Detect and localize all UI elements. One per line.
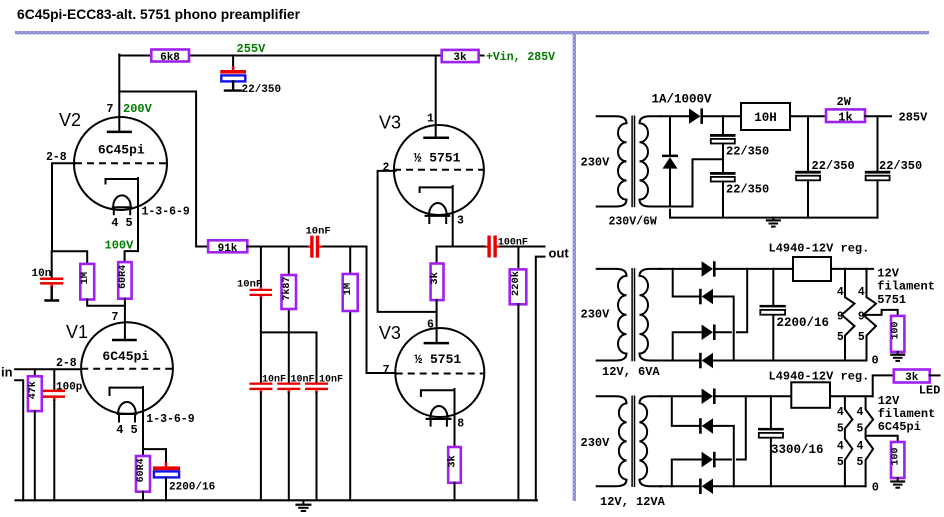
diode D11 bridge: [702, 452, 713, 468]
capacitor 100nF output: [485, 236, 528, 258]
tube V3b heater: [430, 406, 447, 418]
tube V1 envelope: [81, 322, 173, 414]
wire 1k to output: [865, 115, 891, 117]
wire V3a cathode to output: [437, 186, 545, 247]
svg-text:0: 0: [872, 354, 879, 368]
svg-text:5: 5: [858, 331, 865, 344]
svg-text:V3: V3: [379, 113, 401, 133]
diode D5 bridge: [702, 261, 713, 277]
diode D6 bridge: [699, 289, 702, 305]
wire D1 to choke: [703, 115, 741, 117]
svg-text:1M: 1M: [79, 272, 91, 285]
diode D9 bridge: [702, 389, 713, 405]
svg-text:½ 5751: ½ 5751: [414, 352, 461, 367]
wire LED stub: [930, 374, 940, 376]
transformer T2 core: [632, 269, 634, 361]
capacitor 22/350 first: [710, 116, 769, 172]
diode D7 bridge: [702, 325, 713, 341]
svg-text:1-3-6-9: 1-3-6-9: [142, 206, 190, 219]
svg-text:5: 5: [837, 331, 844, 344]
svg-text:8: 8: [457, 418, 464, 431]
svg-text:230V/6W: 230V/6W: [609, 216, 657, 229]
ground symbol: [295, 501, 311, 512]
svg-text:100V: 100V: [105, 239, 135, 253]
svg-text:V3: V3: [379, 323, 401, 343]
svg-text:2: 2: [383, 162, 390, 175]
resistor 3k SRPP: [429, 247, 444, 344]
transformer T2 primary: [597, 269, 627, 361]
resistor 100 hum PSU3: [891, 442, 904, 478]
svg-text:10H: 10H: [754, 111, 777, 125]
svg-text:230V: 230V: [581, 156, 611, 170]
svg-text:L4940-12V reg.: L4940-12V reg.: [769, 242, 870, 256]
diode D12 bridge: [699, 479, 702, 495]
svg-text:V1: V1: [66, 322, 88, 342]
transformer T1 core: [632, 116, 634, 206]
ground symbol PSU3: [890, 478, 905, 489]
svg-text:22/350: 22/350: [242, 84, 282, 96]
tube V1 cathode: [110, 388, 144, 396]
svg-text:4: 4: [858, 286, 865, 299]
svg-text:LED: LED: [919, 384, 941, 398]
svg-text:4: 4: [837, 406, 844, 419]
svg-text:in: in: [1, 365, 13, 380]
wire bridge stub C: [672, 396, 699, 426]
resistor 1M grid V2: [79, 264, 125, 306]
capacitor 22/350 third: [795, 116, 854, 217]
tube V1 grid: [81, 368, 173, 370]
heater zigzag right 5751: [863, 269, 876, 361]
wire 91k output node: [248, 247, 396, 374]
svg-text:1k: 1k: [838, 110, 852, 124]
regulator U2 box: [791, 382, 830, 408]
wire input ground stub: [15, 380, 23, 500]
transformer T3 core: [632, 396, 634, 486]
svg-text:5: 5: [131, 423, 138, 437]
svg-text:4: 4: [111, 216, 118, 230]
svg-text:1M: 1M: [342, 283, 354, 296]
capacitor 2200/16: [153, 449, 215, 500]
svg-text:100nF: 100nF: [498, 238, 528, 249]
wire shunt branch 1: [260, 247, 262, 288]
capacitor 3300/16: [758, 396, 824, 486]
svg-text:5751: 5751: [877, 293, 906, 307]
svg-text:12V: 12V: [877, 266, 899, 280]
wire D10 anode to ground: [713, 426, 734, 486]
diode D10 bridge: [699, 418, 702, 434]
ground symbol PSU1: [766, 218, 781, 228]
svg-text:7: 7: [107, 103, 114, 116]
tube V3a grid: [394, 169, 484, 171]
svg-text:12V, 12VA: 12V, 12VA: [600, 495, 666, 509]
capacitor 22/350 second: [710, 172, 769, 218]
capacitor 22/350 fourth: [865, 116, 922, 217]
tube V3a envelope: [394, 125, 484, 215]
svg-text:6C45pi: 6C45pi: [98, 143, 145, 158]
svg-text:4: 4: [837, 440, 844, 453]
wire D7 cathode jog to plus: [716, 269, 748, 332]
svg-text:22/350: 22/350: [879, 159, 922, 173]
svg-text:7k87: 7k87: [281, 277, 293, 301]
svg-text:+Vin, 285V: +Vin, 285V: [486, 51, 555, 64]
svg-text:out: out: [549, 246, 570, 261]
wire secondary top to D1: [660, 115, 689, 117]
resistor 1k: [826, 109, 865, 122]
wire T3 secondary bottom: [660, 485, 699, 487]
regulator U1 box: [793, 257, 831, 281]
wire bridge plus rail: [716, 268, 794, 270]
svg-text:2200/16: 2200/16: [777, 316, 830, 330]
tube V3b plate: [424, 342, 450, 345]
tube V2 heater: [113, 195, 131, 206]
svg-text:5: 5: [857, 423, 864, 436]
resistor 3k LED: [894, 370, 930, 383]
wire branch to 91k: [119, 92, 208, 247]
resistor 91k: [208, 240, 247, 252]
capacitor 10nF bottom 3: [305, 375, 343, 501]
wire regulator output: [831, 268, 873, 270]
transformer T3 secondary: [640, 396, 662, 486]
svg-text:1A/1000V: 1A/1000V: [652, 93, 713, 107]
svg-text:9: 9: [858, 311, 865, 324]
vertical separator: [573, 33, 576, 501]
svg-text:6k8: 6k8: [160, 52, 180, 64]
wire heater tap PSU3: [866, 436, 898, 442]
svg-text:½ 5751: ½ 5751: [414, 151, 461, 166]
svg-text:285V: 285V: [899, 111, 929, 125]
wire V3a grid to V3b plate: [378, 171, 437, 312]
tube V2 grid: [75, 162, 166, 164]
wire ground rail: [16, 499, 537, 501]
tube V3a plate: [423, 137, 449, 140]
svg-text:2200/16: 2200/16: [169, 482, 215, 494]
svg-text:10nF: 10nF: [237, 279, 262, 291]
svg-text:47k: 47k: [27, 381, 39, 399]
wire bridge plus rail PSU3: [716, 395, 792, 397]
svg-text:3k: 3k: [429, 272, 441, 285]
svg-text:10nF: 10nF: [306, 226, 331, 238]
tube V3b envelope: [395, 328, 484, 417]
svg-text:5: 5: [837, 456, 844, 469]
transformer T1 primary: [597, 116, 627, 206]
svg-text:100: 100: [891, 447, 902, 465]
svg-text:12V: 12V: [878, 394, 900, 408]
wire V2 plate drop: [118, 55, 120, 132]
svg-text:60R4: 60R4: [118, 265, 129, 289]
resistor 220k: [510, 247, 527, 501]
svg-text:filament: filament: [877, 280, 935, 294]
capacitor 22/350 reservoir: [220, 56, 281, 97]
svg-text:230V: 230V: [581, 436, 611, 450]
tube V1 heater: [118, 402, 136, 413]
wire PSU1 ground rail: [670, 217, 878, 219]
horizontal rule: [15, 31, 929, 34]
heater zigzag left 5751: [842, 269, 855, 361]
svg-text:12V, 6VA: 12V, 6VA: [602, 365, 660, 379]
wire secondary bottom midpoint tap: [660, 159, 723, 206]
svg-text:220k: 220k: [510, 271, 522, 296]
svg-text:5: 5: [126, 216, 133, 230]
capacitor 10nF shunt upper: [237, 279, 272, 299]
transformer T1 secondary: [640, 116, 662, 206]
wire RIAA tie bar: [261, 299, 317, 383]
wire bridge stub D: [672, 460, 702, 487]
wire heater center tap: [863, 310, 898, 316]
wire D6 anode to ground: [713, 297, 734, 361]
heater zigzag right 6C45pi: [866, 396, 874, 486]
wire B+ top rail: [119, 55, 483, 57]
resistor 6k8: [151, 50, 189, 62]
svg-text:5: 5: [837, 423, 844, 436]
svg-text:7: 7: [383, 364, 390, 377]
capacitor 10nF series: [306, 226, 331, 258]
svg-text:60R4: 60R4: [136, 458, 147, 482]
transformer T3 primary: [597, 396, 627, 486]
svg-text:255V: 255V: [237, 42, 267, 56]
transformer T2 secondary: [640, 269, 662, 361]
svg-text:1: 1: [427, 113, 434, 126]
svg-text:1-3-6-9: 1-3-6-9: [146, 413, 194, 426]
tube V3b grid: [396, 373, 485, 375]
resistor 100 hum: [891, 316, 904, 352]
wire input: [15, 368, 81, 370]
choke 10H: [741, 103, 790, 130]
wire choke to 1k: [790, 115, 826, 117]
svg-text:6C45pi: 6C45pi: [878, 420, 921, 434]
resistor 3k V3b cathode: [447, 389, 461, 500]
tube V3b cathode: [421, 390, 455, 397]
svg-text:22/350: 22/350: [812, 159, 855, 173]
svg-text:3k: 3k: [905, 372, 919, 384]
svg-text:4: 4: [116, 423, 123, 437]
svg-text:6C45pi-ECC83-alt. 5751 phono p: 6C45pi-ECC83-alt. 5751 phono preamplifie…: [17, 7, 301, 22]
tube V1 plate: [112, 339, 137, 342]
svg-text:5: 5: [857, 456, 864, 469]
diode D2 shunt: [662, 116, 678, 217]
wire LED branch: [873, 375, 894, 396]
svg-text:200V: 200V: [123, 102, 153, 116]
svg-text:3k: 3k: [447, 455, 459, 468]
ground symbol PSU2: [890, 352, 905, 362]
heater zigzag left 6C45pi: [845, 396, 853, 486]
capacitor 10nF bottom 1: [249, 375, 286, 501]
wire PSU2 ground rail: [713, 360, 867, 362]
wire out ground stub: [536, 257, 545, 501]
wire bridge stub A: [673, 269, 699, 297]
capacitor 10nF bottom 2: [277, 375, 314, 501]
svg-text:22/350: 22/350: [726, 183, 769, 197]
wire T3 secondary top: [660, 395, 702, 397]
resistor 60R4 V1 cathode: [136, 387, 166, 500]
svg-text:3: 3: [457, 215, 464, 228]
svg-text:0: 0: [872, 481, 879, 495]
diode D1 series: [689, 108, 700, 124]
capacitor 2200/16: [760, 269, 830, 361]
svg-text:2-8: 2-8: [56, 357, 77, 370]
wire V2 grid net: [52, 163, 87, 264]
resistor 60R4 V2 cathode: [118, 178, 138, 340]
svg-text:4: 4: [857, 440, 864, 453]
resistor 1M interstage: [342, 247, 358, 501]
capacitor 10n: [32, 251, 64, 300]
svg-text:230V: 230V: [581, 308, 611, 322]
svg-text:7: 7: [112, 311, 119, 324]
svg-text:4: 4: [857, 406, 864, 419]
svg-text:filament: filament: [878, 407, 936, 421]
svg-text:91k: 91k: [218, 243, 238, 255]
resistor 3k top: [442, 50, 479, 62]
svg-text:V2: V2: [59, 110, 81, 130]
wire D11 cathode jog to plus: [716, 396, 746, 459]
wire V3a plate drop: [435, 56, 437, 138]
wire bridge stub B: [673, 332, 702, 360]
tube V2 cathode: [106, 179, 139, 185]
resistor 7k87: [281, 247, 296, 310]
svg-text:2-8: 2-8: [46, 151, 67, 164]
svg-text:3300/16: 3300/16: [771, 443, 824, 457]
wire T2 secondary top: [660, 268, 702, 270]
tube V3a heater: [429, 203, 447, 215]
svg-text:100: 100: [891, 321, 902, 339]
wire T2 secondary bottom: [660, 360, 699, 362]
tube V2 envelope: [74, 117, 167, 210]
svg-text:9: 9: [837, 311, 844, 324]
svg-text:3k: 3k: [453, 52, 467, 64]
capacitor 100p: [43, 369, 83, 500]
wire PSU3 ground rail: [713, 485, 866, 487]
svg-text:6C45pi: 6C45pi: [102, 349, 149, 364]
svg-text:4: 4: [837, 286, 844, 299]
tube V3a cathode: [420, 187, 453, 193]
wire regulator output PSU3: [830, 395, 873, 397]
svg-text:22/350: 22/350: [726, 145, 769, 159]
tube V2 plate: [107, 131, 132, 134]
svg-text:6: 6: [427, 319, 434, 332]
resistor 47k: [27, 369, 42, 500]
svg-text:2W: 2W: [837, 95, 852, 109]
diode D8 bridge: [699, 353, 702, 369]
